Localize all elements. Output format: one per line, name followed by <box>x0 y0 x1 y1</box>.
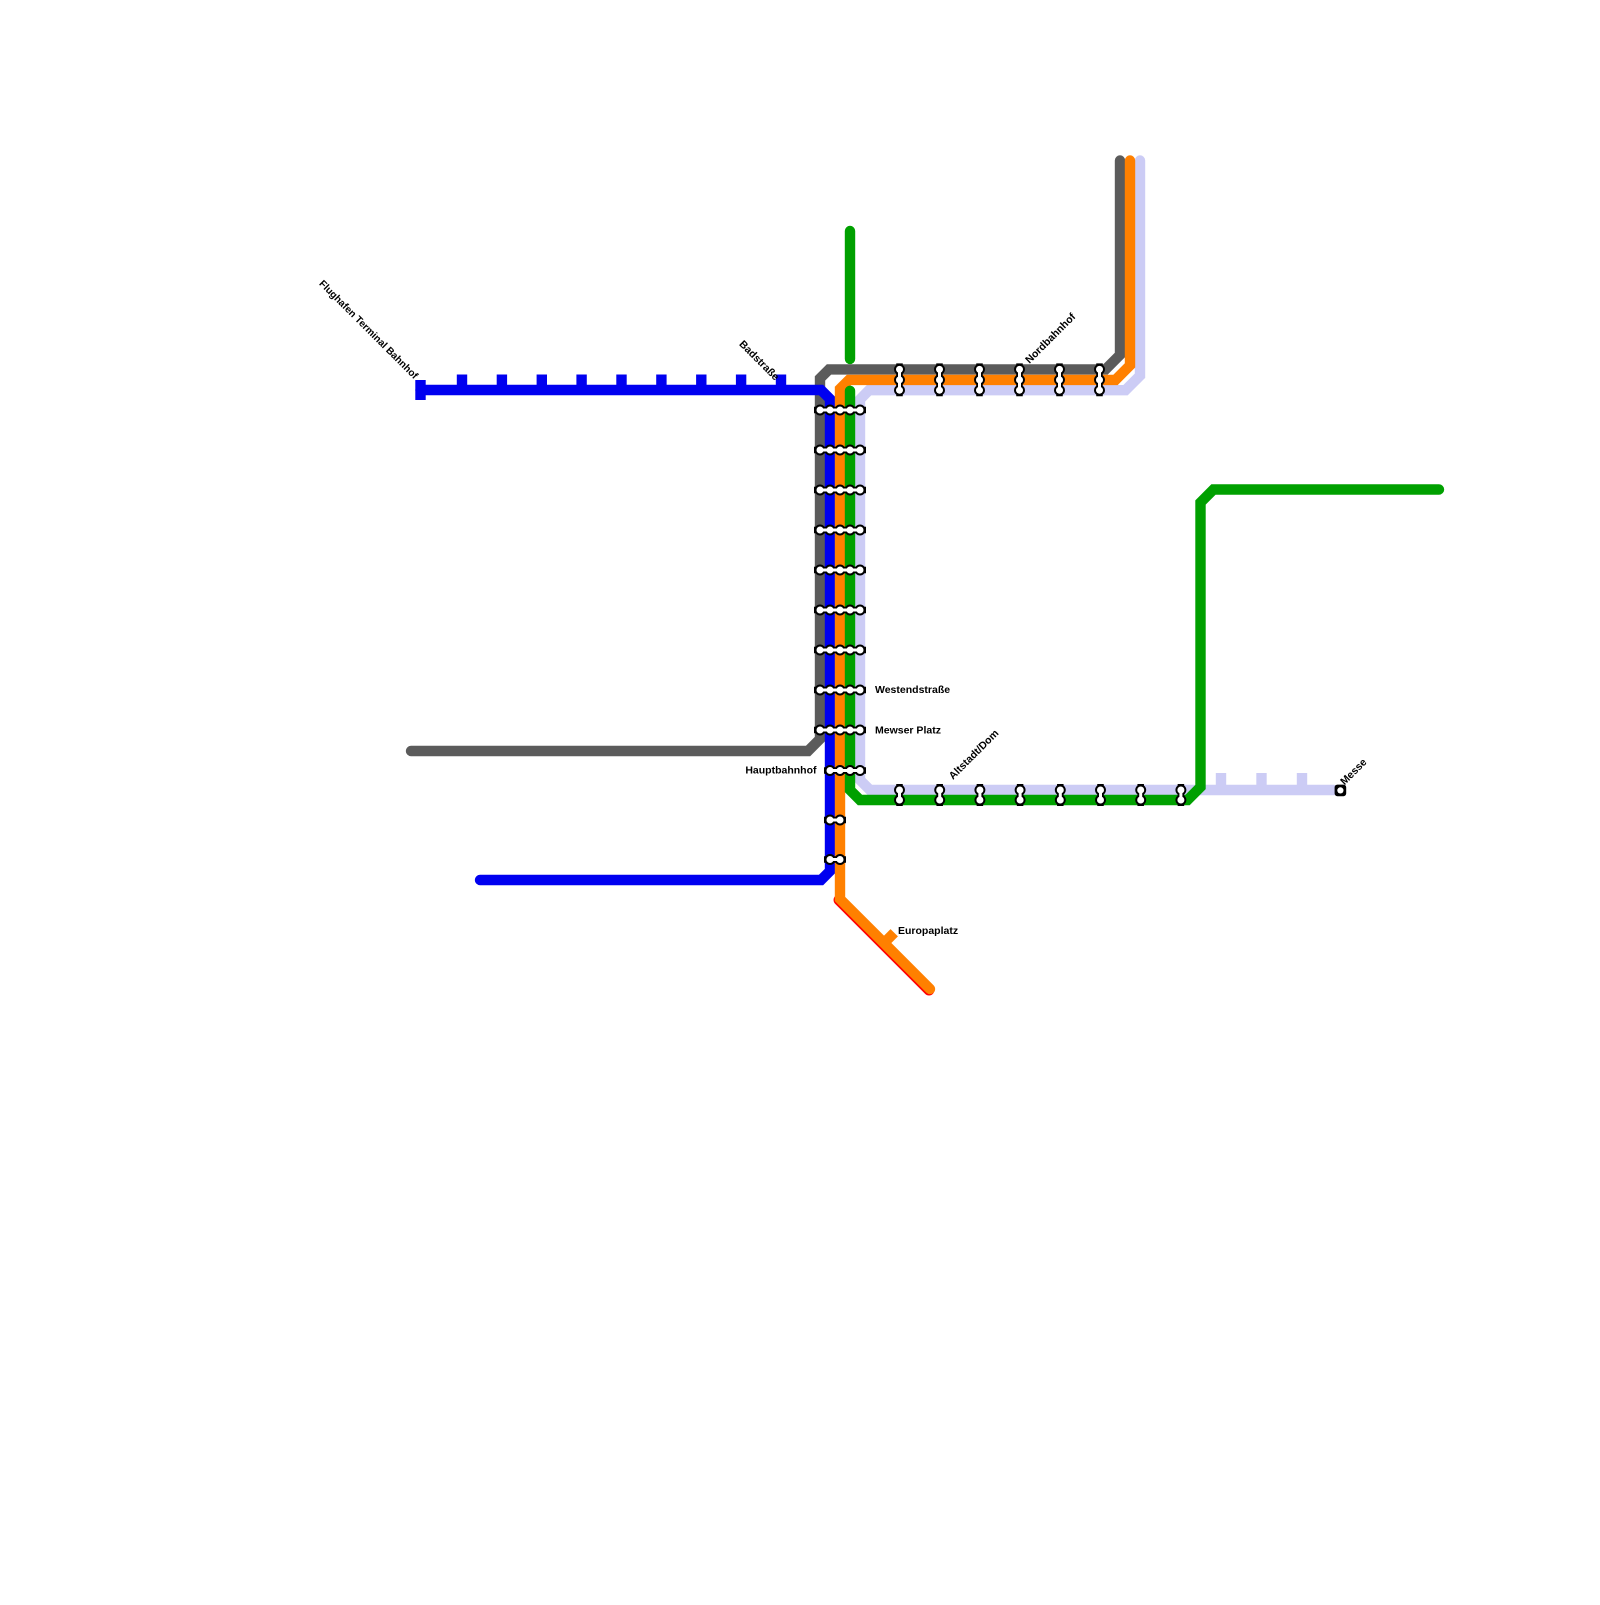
svg-text:Hauptbahnhof: Hauptbahnhof <box>745 765 817 777</box>
blue line U1: airport to southwest end <box>421 390 831 880</box>
lavender line U5: top right to Messe <box>860 161 1334 791</box>
station chain trunk-7 <box>814 645 866 656</box>
station chain east-1 <box>894 784 905 806</box>
station chain trunk-5 <box>814 565 866 576</box>
station chain east-2 <box>934 784 945 806</box>
station chain nord-5 <box>1054 363 1065 396</box>
station chain east-7 <box>1135 784 1146 806</box>
station chain east-6 <box>1095 784 1106 806</box>
terminus Messe <box>1335 785 1347 797</box>
svg-text:Westendstraße: Westendstraße <box>875 684 950 696</box>
station chains <box>814 363 1346 865</box>
station chain east-3 <box>974 784 985 806</box>
lavender tick 1 <box>1216 773 1226 790</box>
station chain east-8 <box>1175 784 1186 806</box>
blue terminus bar Flughafen <box>415 380 425 400</box>
station chain pair-820 <box>824 815 846 826</box>
green line U3 top segment <box>845 231 855 359</box>
station chain pair-860 <box>824 854 846 865</box>
station chain trunk-1 <box>814 405 866 416</box>
orange line U2: top right to Europaplatz <box>840 161 1130 990</box>
station chain east-5 <box>1055 784 1066 806</box>
lavender tick 2 <box>1256 773 1266 790</box>
svg-text:Europaplatz: Europaplatz <box>898 925 958 937</box>
svg-text:Mewser Platz: Mewser Platz <box>875 725 941 737</box>
station chain nord-6 <box>1094 363 1105 396</box>
red line under orange diagonal <box>839 900 929 990</box>
station chain trunk-3 <box>814 485 866 496</box>
station chain nord-1 <box>894 363 905 396</box>
station chain Hauptbahnhof <box>824 765 866 776</box>
orange tick Europaplatz <box>884 933 894 943</box>
station chain nord-3 <box>974 363 985 396</box>
station chain trunk-6 <box>814 605 866 616</box>
station chain east-4 <box>1015 784 1026 806</box>
station chain trunk-9 <box>814 725 866 736</box>
station chain trunk-2 <box>814 445 866 456</box>
station chain nord-2 <box>934 363 945 396</box>
blue station ticks <box>462 375 781 391</box>
gray line U4: Nordbahnhof branch to west end <box>411 161 1120 752</box>
green line U3 main: center to east end <box>850 391 1439 800</box>
station chain nord-4 <box>1014 363 1025 396</box>
lavender tick 3 <box>1297 773 1307 790</box>
station chain trunk-8 <box>814 685 866 696</box>
station chain trunk-4 <box>814 525 866 536</box>
